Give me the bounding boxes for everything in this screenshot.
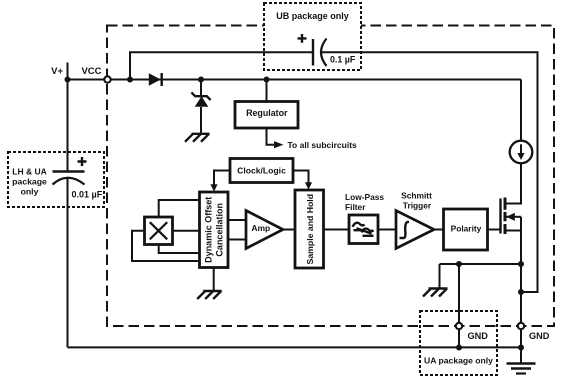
low-pass filter block U5	[349, 215, 378, 244]
arrowhead: body arrow	[506, 213, 515, 221]
wire: DOC outputs to amp	[228, 220, 246, 240]
icon: hysteresis	[400, 222, 410, 238]
transistor Q1 channel segments	[504, 198, 507, 235]
svg-text:Polarity: Polarity	[451, 223, 482, 233]
label: C1 plus sign	[78, 157, 87, 166]
node: UA gnd tap junction	[456, 261, 462, 267]
svg-text:Clock/Logic: Clock/Logic	[237, 165, 286, 175]
wire: schmitt to polarity	[434, 229, 444, 231]
svg-text:To all subcircuits: To all subcircuits	[288, 140, 358, 150]
arrowhead: to all subcircuits	[274, 141, 284, 148]
wire: bypass return to output node	[321, 52, 538, 292]
diode D1 (series)	[149, 73, 161, 86]
wire: filter to schmitt	[378, 229, 396, 231]
arrowhead: into sample/hold	[305, 182, 312, 189]
wire: internal ground drop	[439, 264, 441, 288]
svg-text:GND: GND	[529, 331, 550, 341]
capacitor C1 curved plate	[53, 178, 85, 185]
svg-text:V+: V+	[51, 66, 63, 77]
wire: zener to ground	[200, 107, 202, 133]
svg-text:0.01 µF: 0.01 µF	[72, 190, 103, 200]
wire: S&H to low-pass filter	[324, 229, 350, 231]
svg-text:LH & UA: LH & UA	[12, 167, 46, 177]
wire: clock to sample/hold	[293, 171, 309, 183]
node: source junction	[518, 261, 524, 267]
capacitor C2 curved plate	[321, 39, 327, 67]
polarity block U7	[444, 209, 488, 250]
UA package only box (dashed)	[420, 311, 497, 375]
wire: clock to DOC	[214, 171, 230, 185]
svg-text:Cancellation: Cancellation	[215, 203, 225, 257]
svg-text:GND: GND	[468, 331, 489, 341]
svg-text:UA package only: UA package only	[424, 355, 493, 365]
ground (output stage)	[423, 289, 448, 297]
node: regulator junction	[264, 77, 270, 83]
svg-text:Filter: Filter	[345, 202, 366, 212]
node: zener junction	[198, 77, 204, 83]
wire: hall bottom to DOC	[159, 245, 200, 254]
main IC boundary (dashed)	[107, 26, 554, 327]
wire: polarity to gate	[488, 229, 501, 231]
icon: low-pass filter waves	[353, 223, 374, 236]
arrowhead: into DOC	[210, 184, 217, 191]
wire: hall top to DOC	[159, 200, 200, 217]
label: C2 plus sign	[298, 34, 307, 43]
regulator U1	[266, 80, 268, 102]
clock/logic block U2	[230, 159, 293, 183]
schmitt trigger U6	[396, 211, 434, 249]
svg-text:package: package	[12, 177, 47, 187]
svg-text:Regulator: Regulator	[246, 108, 288, 118]
capacitor C1 0.01 uF (LH/UA) plate	[53, 170, 85, 172]
sample and hold block U4	[295, 190, 324, 268]
pin: GND UA (open circle)	[456, 323, 462, 329]
op-amp A1	[246, 211, 283, 249]
node: bottom bus junction (GND)	[518, 345, 524, 351]
svg-text:VCC: VCC	[81, 66, 101, 77]
wire: internal ground run	[440, 263, 522, 265]
svg-text:UB package only: UB package only	[276, 11, 349, 21]
svg-text:only: only	[21, 187, 39, 197]
wire: bottom ground bus	[68, 346, 522, 348]
current source I1	[520, 80, 522, 141]
svg-text:0.1 µF: 0.1 µF	[330, 55, 356, 65]
wire: source connection	[506, 230, 521, 232]
UB package only box (dashed)	[264, 3, 361, 70]
wire: drain to current source	[506, 163, 521, 203]
svg-text:Schmitt: Schmitt	[401, 191, 432, 201]
wire: GND pin tap (UA)	[458, 264, 460, 347]
ground (earth, external)	[507, 362, 536, 365]
wire: hall right to DOC	[173, 230, 200, 232]
wire: source down to output node	[520, 217, 522, 264]
capacitor C2 0.1 uF plate	[312, 39, 314, 66]
wire: hall left wrap to DOC	[132, 231, 200, 261]
zener diode Z1	[200, 80, 202, 96]
ground (DOC)	[197, 291, 222, 299]
ground (zener)	[185, 134, 210, 142]
svg-text:Sample and Hold: Sample and Hold	[305, 194, 315, 264]
wire: V+ vertical rail	[67, 63, 69, 171]
wire: amp out	[283, 229, 295, 231]
hall element X1	[145, 217, 173, 245]
svg-text:Amp: Amp	[251, 223, 270, 233]
transistor Q1 (output DMOS) gate bar	[499, 199, 501, 234]
wire: branch up to bypass rail	[130, 52, 312, 79]
wire: GND pin tap (main)	[520, 264, 522, 347]
node: V+ junction	[65, 77, 71, 83]
dynamic offset cancellation block U3	[200, 192, 229, 268]
wire: DOC to ground	[213, 268, 215, 291]
LH &amp; UA package only box (dashed)	[8, 152, 104, 207]
pin: VCC (open circle)	[104, 76, 110, 82]
node: bypass branch junction	[127, 77, 133, 83]
node: bypass return junction	[518, 289, 524, 295]
wire: earth ground stem	[520, 347, 522, 363]
wire: VCC rail inside IC	[110, 79, 521, 81]
pin: GND (open circle)	[518, 323, 524, 329]
wire: regulator output	[267, 128, 275, 145]
wire: V+ rail below capacitor C1 to bottom	[67, 179, 69, 348]
wire: V+ to VCC pin	[68, 79, 105, 81]
wire: body connection	[507, 216, 522, 218]
svg-text:Dynamic Offset: Dynamic Offset	[204, 197, 214, 263]
node: bottom bus junction (UA)	[456, 345, 462, 351]
svg-text:Trigger: Trigger	[403, 200, 432, 210]
svg-text:Low-Pass: Low-Pass	[345, 192, 384, 202]
